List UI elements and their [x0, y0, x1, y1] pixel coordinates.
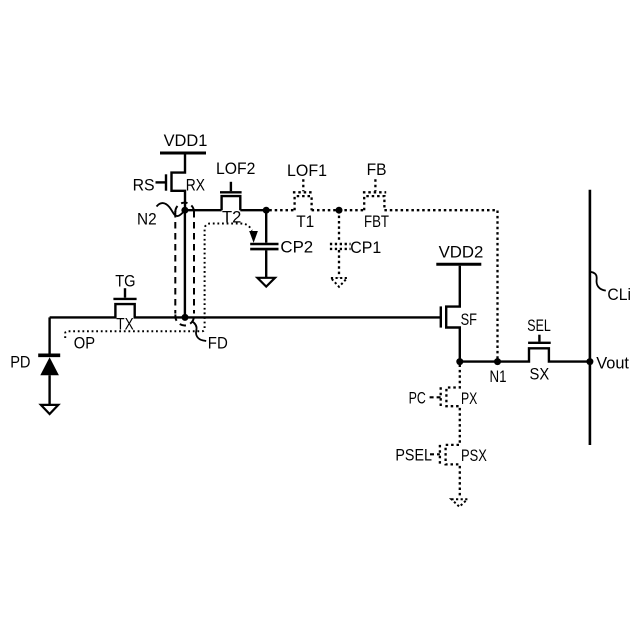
CLi leader squiggle: [590, 272, 606, 291]
ground under PSX (dotted): [451, 499, 467, 507]
dotted OP loop with corner up to CP2: [65, 224, 252, 339]
label SX: [530, 365, 550, 384]
VDD1 supply bar: [160, 152, 206, 155]
FD leader squiggle: [192, 321, 206, 341]
transistor FBT (dotted): [363, 179, 386, 210]
transistor SX gate: [528, 335, 551, 343]
N2 leader squiggle: [157, 203, 185, 216]
svg-text:LOF2: LOF2: [216, 159, 255, 178]
VDD2 label: [439, 243, 484, 262]
VDD1 label: [164, 131, 208, 150]
svg-text:PD: PD: [10, 352, 30, 371]
label Vout: [596, 353, 629, 372]
svg-text:RX: RX: [186, 176, 205, 195]
wire N2 to T2: [185, 209, 222, 211]
label T2: [222, 207, 241, 226]
dotted wire FBT to right corner: [384, 210, 497, 361]
wire left corner down to PD: [48, 317, 50, 353]
transistor T1 (dotted): [293, 179, 314, 210]
label PC: [409, 388, 426, 407]
ground under PD: [41, 405, 58, 414]
label CP1: [350, 238, 381, 257]
label PX: [461, 389, 477, 408]
VDD2 supply bar: [436, 263, 481, 266]
ground under CP2: [257, 278, 275, 287]
svg-text:CP1: CP1: [350, 238, 381, 257]
svg-text:PSX: PSX: [461, 446, 487, 465]
label CP2: [280, 238, 313, 257]
transistor TX gate: [113, 288, 136, 299]
label PSX: [461, 446, 487, 465]
svg-text:OP: OP: [74, 334, 95, 353]
svg-text:CP2: CP2: [280, 238, 313, 257]
node Vout dot: [586, 358, 593, 365]
svg-text:VDD2: VDD2: [439, 243, 484, 262]
svg-text:FBT: FBT: [364, 212, 389, 231]
node at CP1 tap: [336, 207, 343, 214]
node FD dot: [182, 314, 189, 321]
dashed enclosure bottom arc at FD: [175, 315, 194, 326]
dashed enclosure top arc at N2: [175, 203, 194, 212]
svg-text:CLi: CLi: [607, 285, 631, 304]
svg-text:SF: SF: [461, 310, 477, 329]
svg-text:N2: N2: [137, 209, 157, 228]
label N1: [490, 367, 507, 386]
dotted wire node to FBT: [339, 209, 364, 211]
ground under CP1 (dotted): [331, 278, 347, 287]
svg-text:PC: PC: [409, 388, 426, 407]
node N2 dot: [181, 207, 188, 214]
svg-text:FD: FD: [208, 334, 228, 353]
label FB: [367, 160, 387, 179]
label T1: [296, 212, 314, 231]
OP arrowhead into CP2: [249, 231, 258, 243]
dotted wire T1 to node: [312, 209, 339, 211]
column line CLi: [589, 190, 592, 445]
capacitor CP1 (dotted): [330, 210, 351, 277]
transistor T2: [220, 182, 242, 210]
label TX: [116, 314, 134, 333]
svg-text:SEL: SEL: [527, 316, 551, 335]
svg-text:RS: RS: [133, 176, 155, 195]
svg-text:PSEL: PSEL: [395, 446, 432, 465]
label LOF1: [287, 161, 327, 180]
transistor SF: [441, 266, 460, 362]
label SF: [461, 310, 477, 329]
label CLi: [607, 285, 631, 304]
wire PD row with transistor TX bump to SF gate: [50, 304, 441, 317]
svg-text:SX: SX: [530, 365, 550, 384]
svg-text:N1: N1: [490, 367, 507, 386]
dotted wire with PX and PSX channels: [446, 365, 460, 497]
svg-text:LOF1: LOF1: [287, 161, 327, 180]
label LOF2: [216, 159, 255, 178]
label RS: [133, 176, 155, 195]
dotted wire node to T1: [269, 209, 294, 211]
node at CP2 tap: [263, 207, 270, 214]
transistor PX gate (dotted): [430, 387, 441, 407]
svg-text:T1: T1: [296, 212, 314, 231]
label SEL: [527, 316, 551, 335]
svg-text:FB: FB: [367, 160, 387, 179]
wire T2 to CP2 node: [240, 209, 266, 211]
dashed enclosure right line: [193, 211, 195, 314]
capacitor CP2: [250, 210, 278, 277]
label PD: [10, 352, 30, 371]
label RX: [186, 176, 205, 195]
label N2: [137, 209, 157, 228]
transistor RX: [156, 153, 186, 210]
svg-text:Vout: Vout: [596, 353, 629, 372]
dashed enclosure left line: [174, 211, 176, 314]
label PSEL: [395, 446, 432, 465]
svg-text:PX: PX: [461, 389, 477, 408]
label FBT: [364, 212, 389, 231]
node N1 dot: [494, 358, 501, 365]
label TG: [115, 271, 135, 290]
photodiode PD: [38, 355, 60, 404]
label OP: [74, 334, 95, 353]
node SF source dot: [456, 358, 463, 365]
svg-text:VDD1: VDD1: [164, 131, 208, 150]
transistor PSX gate (dotted): [430, 445, 440, 465]
wire N2 down to FD: [184, 210, 186, 317]
svg-text:TG: TG: [115, 271, 135, 290]
wire SF source to SX to Vout: [460, 348, 590, 361]
label FD: [208, 334, 228, 353]
